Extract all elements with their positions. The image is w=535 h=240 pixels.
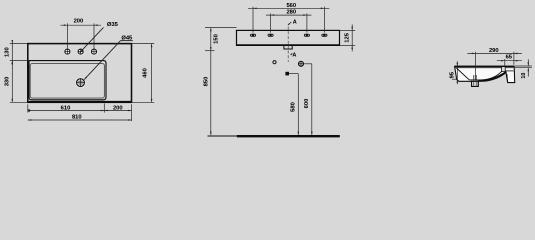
svg-text:130: 130 xyxy=(5,47,11,57)
svg-text:A: A xyxy=(293,20,297,26)
fixing slot 2 xyxy=(268,34,274,37)
mounting body rect xyxy=(237,30,340,45)
tap hole 1 xyxy=(64,48,71,55)
detail marker A lower xyxy=(291,54,293,55)
svg-text:330: 330 xyxy=(5,77,11,87)
svg-text:65: 65 xyxy=(506,55,513,61)
svg-text:150: 150 xyxy=(213,34,219,44)
dim 95 xyxy=(452,78,456,80)
svg-text:560: 560 xyxy=(286,3,296,9)
drain marker crossed circle xyxy=(298,60,305,67)
thick rear bottom band xyxy=(478,72,506,81)
svg-text:A: A xyxy=(292,53,296,59)
svg-text:125: 125 xyxy=(344,32,350,42)
dim 125 xyxy=(340,29,356,31)
drain outlet front xyxy=(75,78,85,88)
leader dia 35 xyxy=(80,27,104,52)
basin profile outer section xyxy=(455,66,515,86)
fixing marker square xyxy=(285,72,289,76)
svg-text:600: 600 xyxy=(304,99,310,109)
svg-text:850: 850 xyxy=(204,77,210,87)
detail marker A top xyxy=(288,22,291,25)
svg-text:810: 810 xyxy=(72,114,82,120)
tap hole 2 xyxy=(77,48,84,55)
dim 850 xyxy=(210,51,212,135)
side section view xyxy=(450,48,532,87)
svg-text:290: 290 xyxy=(489,48,499,54)
dim 560 xyxy=(252,7,254,33)
leader dia 45 xyxy=(84,41,120,80)
rear foot inner line xyxy=(506,74,509,83)
svg-text:280: 280 xyxy=(286,10,296,16)
floor line xyxy=(208,135,237,137)
basin outer body front xyxy=(28,44,132,103)
dim 330 xyxy=(10,101,28,103)
svg-text:Ø45: Ø45 xyxy=(121,36,133,42)
dim 150 xyxy=(205,27,237,29)
front view washbasin xyxy=(5,19,155,121)
dim 65 xyxy=(504,59,506,66)
drain stub xyxy=(472,81,479,86)
svg-text:95: 95 xyxy=(450,71,456,78)
fixing slot 4 xyxy=(321,34,327,37)
svg-text:Ø35: Ø35 xyxy=(107,22,119,28)
dim 460 xyxy=(132,43,155,45)
svg-text:460: 460 xyxy=(143,68,149,78)
basin opening outer rim xyxy=(29,61,106,100)
svg-text:200: 200 xyxy=(74,19,84,25)
dim 280 xyxy=(270,13,272,32)
dim 600 xyxy=(304,63,312,65)
bowl interior surface line xyxy=(456,68,505,80)
centerline xyxy=(287,27,289,63)
svg-text:580: 580 xyxy=(290,102,296,112)
rear installation view xyxy=(204,3,356,136)
supply marker circle xyxy=(273,61,276,64)
basin opening inner rim xyxy=(30,63,104,98)
tap hole section gap xyxy=(502,67,505,71)
dim 200 tap holes xyxy=(66,23,68,48)
dim 290 xyxy=(474,52,476,80)
tap hole 3 xyxy=(90,48,97,55)
dim 10 xyxy=(515,65,532,67)
fixing slot 1 xyxy=(250,34,256,37)
svg-text:200: 200 xyxy=(113,105,123,111)
fixing slot 3 xyxy=(304,34,310,37)
rim bottom line xyxy=(455,67,502,69)
deck underside right xyxy=(505,70,513,72)
dim 130 xyxy=(10,43,28,45)
svg-text:10: 10 xyxy=(521,73,527,79)
siphon notch xyxy=(284,45,292,49)
basin bottom edge thick xyxy=(28,101,132,103)
dim 580 xyxy=(289,73,298,75)
rim top line xyxy=(455,65,515,67)
svg-text:610: 610 xyxy=(61,105,71,111)
dim 610 / 200 bottom xyxy=(27,104,29,112)
dim 810 xyxy=(28,119,132,121)
